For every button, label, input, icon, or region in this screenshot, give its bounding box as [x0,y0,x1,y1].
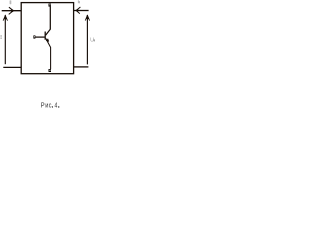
base bar [44,32,46,40]
label U1 (clipped at image edge) [1,35,2,39]
svg-text:U: U [90,37,94,43]
terminal: base (left pin) [33,35,35,38]
wire: bottom-right lead [74,66,89,68]
emitter arrowhead [46,39,49,42]
svg-text:4: 4 [55,102,58,110]
voltage arrow U2 (right measurement line, arrow up) [85,14,89,64]
transistor VT1 (NPN) [35,7,50,70]
two-port network box [21,3,73,74]
wire: bottom-left lead [3,66,21,68]
label I2 [78,0,80,3]
label I1 [10,0,12,4]
svg-text:с: с [49,102,52,110]
wire: top-right lead [74,10,89,12]
emitter lead [46,38,51,69]
terminal: emitter (bottom pin) [49,69,52,72]
voltage arrow U1 (left measurement line, arrow up) [3,14,7,64]
current arrow I2 (points left into port 2) [76,7,80,14]
collector lead [46,7,51,36]
wire: top-left input lead [2,10,22,12]
current arrow I1 (points right into port 1) [9,7,14,14]
base lead wire [35,36,45,38]
label U2 [90,37,95,43]
caption: Рис. 4. [41,102,60,110]
terminal: collector (top pin) [49,4,52,7]
